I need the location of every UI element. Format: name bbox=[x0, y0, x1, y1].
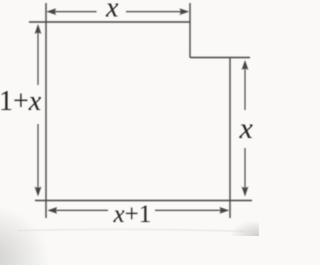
svg-text:x+1: x+1 bbox=[113, 201, 152, 228]
svg-text:x: x bbox=[239, 112, 254, 145]
svg-text:1+x: 1+x bbox=[0, 86, 42, 117]
svg-text:x: x bbox=[105, 0, 119, 24]
